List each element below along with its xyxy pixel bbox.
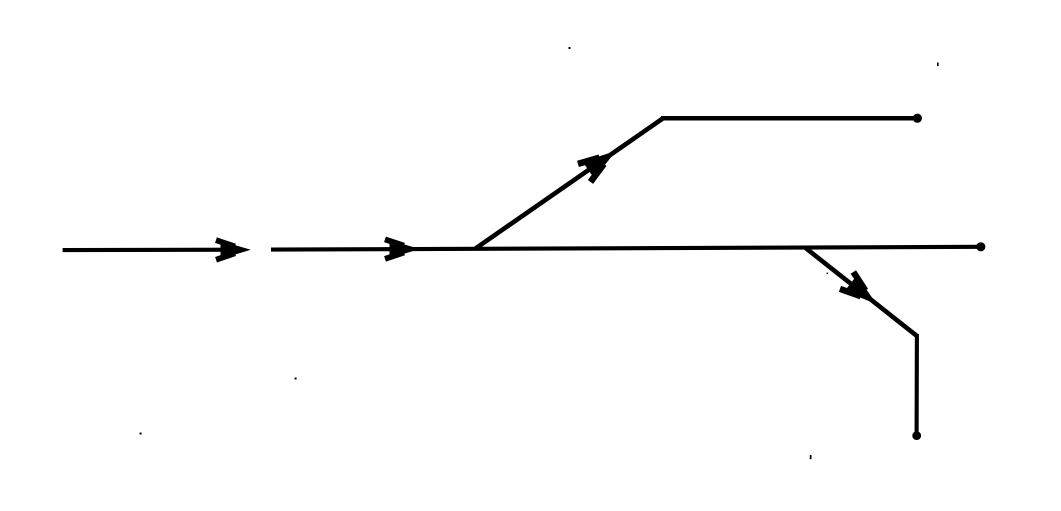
arrowhead on upper branch [578,142,623,182]
arrowhead on main line [385,239,420,259]
wire upper branch horizontal [661,116,917,121]
wire upper branch diagonal [476,118,664,248]
arrowhead on incoming line [216,240,251,260]
wire lower branch diagonal [805,248,917,337]
node main line right terminal dot [976,242,985,251]
wire lower branch vertical [915,334,919,433]
wire incoming line segment [63,248,243,253]
node lower branch terminal dot [912,431,921,440]
arrowhead on lower branch [840,272,883,313]
node upper branch terminal dot [913,114,922,123]
wire main line [271,247,979,250]
